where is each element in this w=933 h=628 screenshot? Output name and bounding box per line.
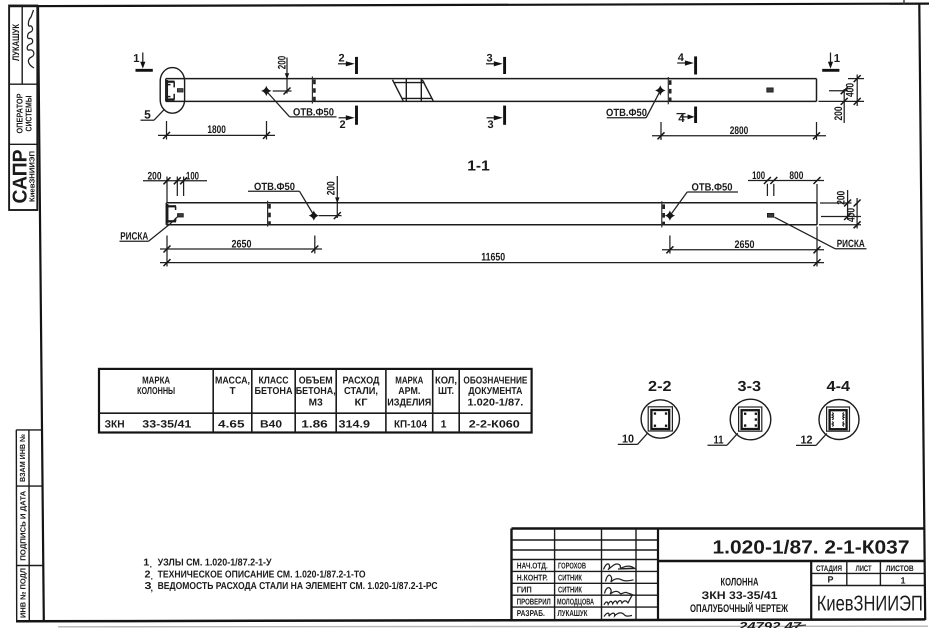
- dim 2650 right: [662, 227, 824, 267]
- svg-text:ЗКН 33-35/41: ЗКН 33-35/41: [702, 590, 778, 602]
- label КиевЗНИИЭП (vertical, small): [27, 151, 36, 202]
- svg-text:ТЕХНИЧЕСКОЕ ОПИСАНИЕ СМ. 1.020: ТЕХНИЧЕСКОЕ ОПИСАНИЕ СМ. 1.020-1/87.2-1-…: [158, 569, 366, 580]
- svg-text:200: 200: [833, 107, 845, 121]
- dim 400 right: [819, 75, 865, 107]
- view label 1-1: [467, 159, 490, 175]
- signature rows names: [557, 561, 594, 619]
- svg-text:Н.КОНТР.: Н.КОНТР.: [517, 573, 548, 583]
- callout 11: [708, 433, 738, 447]
- svg-text:КЛАСС: КЛАСС: [259, 375, 289, 386]
- svg-text:ДОКУМЕНТА: ДОКУМЕНТА: [468, 386, 522, 397]
- dim 2650 left: [160, 236, 322, 267]
- svg-text:БЕТОНА: БЕТОНА: [255, 386, 293, 397]
- signature squiggle СИТНИК 2: [605, 588, 633, 595]
- svg-text:1800: 1800: [207, 124, 226, 136]
- svg-text:ОБОЗНАЧЕНИЕ: ОБОЗНАЧЕНИЕ: [463, 375, 527, 386]
- svg-text:100: 100: [752, 170, 765, 182]
- dim 1800: [158, 121, 275, 140]
- section mark 4 top: [677, 52, 695, 75]
- svg-text:ЛУКАШУК: ЛУКАШУК: [11, 24, 22, 61]
- svg-text:1: 1: [834, 53, 841, 65]
- svg-text:В40: В40: [260, 419, 282, 431]
- LEFTSTRIP: [9, 6, 43, 622]
- svg-text:УЗЛЫ СМ. 1.020-1/87.2-1-У: УЗЛЫ СМ. 1.020-1/87.2-1-У: [158, 558, 273, 569]
- svg-text:200: 200: [836, 191, 848, 205]
- svg-text:,: ,: [151, 583, 154, 593]
- column body (plan view): [166, 79, 817, 102]
- signature squiggle ГОРОХОВ: [604, 564, 636, 570]
- section 2-2 bubble: [641, 400, 679, 438]
- svg-text:33-35/41: 33-35/41: [142, 419, 191, 431]
- SECTIONS: [618, 379, 859, 447]
- section 2-2 label: [648, 379, 672, 395]
- console parallelogram: [393, 79, 434, 102]
- frame bottom border: [16, 619, 925, 621]
- svg-text:МАССА,: МАССА,: [215, 375, 250, 386]
- svg-text:НАЧ.ОТД.: НАЧ.ОТД.: [517, 561, 548, 571]
- svg-text:СИСТЕМЫ: СИСТЕМЫ: [23, 96, 33, 132]
- label САПР (vertical, large): [10, 150, 32, 204]
- svg-text:СИТНИК: СИТНИК: [558, 585, 583, 595]
- frame right border: [919, 4, 925, 620]
- svg-text:2800: 2800: [730, 125, 749, 137]
- svg-text:1.86: 1.86: [301, 419, 328, 431]
- svg-text:ПРОВЕРИЛ: ПРОВЕРИЛ: [517, 596, 551, 606]
- section 4-4 bubble: [819, 400, 859, 440]
- svg-text:1-1: 1-1: [467, 159, 490, 175]
- svg-text:ЛИСТ: ЛИСТ: [856, 564, 872, 573]
- title block grid: [512, 529, 925, 621]
- svg-text:2-2-К060: 2-2-К060: [469, 419, 520, 431]
- leader ОТВ.Ф50 lower left: [248, 181, 314, 215]
- svg-text:КП-104: КП-104: [394, 419, 427, 431]
- paper bottom edge: [58, 625, 928, 628]
- detail ellipse 5: [160, 68, 184, 114]
- label ЛУКАШУК (vertical): [11, 24, 22, 61]
- callout 5: [141, 108, 165, 122]
- svg-text:СИТНИК: СИТНИК: [558, 573, 583, 583]
- svg-text:М3: М3: [309, 398, 323, 409]
- svg-text:1: 1: [133, 53, 140, 65]
- section 3-3 bubble: [730, 399, 771, 440]
- dim 200 right: [829, 87, 848, 123]
- table header КЛАСС БЕТОНА: [255, 375, 293, 397]
- svg-text:200: 200: [148, 170, 162, 182]
- svg-text:ИЗДЕЛИЯ: ИЗДЕЛИЯ: [387, 398, 431, 409]
- section mark 1 left: [133, 53, 153, 71]
- svg-text:2650: 2650: [735, 239, 755, 251]
- svg-text:КГ: КГ: [355, 398, 368, 409]
- svg-text:МОЛОДЦОВА: МОЛОДЦОВА: [557, 596, 594, 606]
- svg-text:4: 4: [678, 52, 685, 64]
- logo КиевЗНИИЭП: [817, 591, 923, 615]
- svg-text:400: 400: [845, 83, 857, 97]
- table header ОБОЗНАЧЕНИЕ ДОКУМЕНТА: [463, 375, 527, 408]
- svg-text:800: 800: [789, 170, 803, 182]
- svg-text:4-4: 4-4: [827, 379, 851, 395]
- svg-text:200: 200: [325, 181, 337, 195]
- table header КОЛ ШТ: [435, 375, 457, 397]
- svg-text:2-2: 2-2: [648, 379, 672, 395]
- hole mark left: [261, 86, 271, 96]
- svg-text:СТАДИЯ: СТАДИЯ: [816, 564, 842, 573]
- svg-text:ЛУКАШУК: ЛУКАШУК: [558, 608, 589, 618]
- svg-text:Т: Т: [229, 386, 235, 397]
- svg-text:2: 2: [338, 53, 344, 65]
- note 3: [145, 581, 438, 593]
- stage cells labels: [816, 564, 914, 586]
- leader ОТВ.Ф50 left: [267, 92, 337, 119]
- TITLEBLOCK: [512, 529, 925, 628]
- section mark 1 right: [822, 53, 841, 71]
- dims 200 400 lower right: [819, 190, 861, 229]
- svg-text:ОБЪЕМ: ОБЪЕМ: [299, 375, 333, 386]
- table header МАРКА АРМ ИЗДЕЛИЯ: [387, 375, 431, 408]
- svg-text:ПОДПИСЬ И ДАТА: ПОДПИСЬ И ДАТА: [18, 490, 27, 561]
- svg-text:4.65: 4.65: [218, 419, 245, 431]
- leader ОТВ.Ф50 lower right: [670, 182, 738, 216]
- note 1: [143, 558, 272, 570]
- svg-text:ВЗАМ ИНВ №: ВЗАМ ИНВ №: [18, 434, 27, 482]
- label РИСКА right: [775, 217, 867, 250]
- section 4-4 label: [827, 379, 851, 395]
- inventory box bottom-left: [16, 430, 43, 621]
- svg-text:314.9: 314.9: [339, 419, 371, 431]
- section mark 2 bottom: [339, 106, 357, 131]
- dim 11650: [160, 252, 824, 266]
- section mark 3 top: [486, 53, 505, 75]
- callout 12: [796, 433, 827, 446]
- dim 200 vertical mid: [273, 56, 292, 95]
- doc number 1.020-1/87. 2-1-К037: [713, 537, 910, 558]
- riska plate lower left: [178, 214, 184, 217]
- signature rows labels: [517, 561, 551, 619]
- svg-text:1: 1: [900, 576, 905, 586]
- end channel marks lower left: [166, 204, 176, 224]
- signature squiggle МОЛОДЦОВА: [604, 595, 632, 604]
- svg-text:КиевЗНИИЭП: КиевЗНИИЭП: [27, 151, 36, 202]
- project name КОЛОННА: [690, 576, 788, 615]
- svg-text:.: .: [150, 560, 153, 570]
- dim 200 vertical lower: [319, 176, 342, 219]
- svg-text:ВЕДОМОСТЬ РАСХОДА СТАЛИ НА ЭЛЕ: ВЕДОМОСТЬ РАСХОДА СТАЛИ НА ЭЛЕМЕНТ СМ. 1…: [158, 581, 438, 592]
- svg-text:11650: 11650: [481, 252, 505, 264]
- stamp box top-left: [9, 6, 37, 211]
- svg-text:РАЗРАБ.: РАЗРАБ.: [517, 608, 545, 618]
- svg-text:2650: 2650: [232, 238, 252, 250]
- leader ОТВ.Ф50 right: [606, 91, 660, 119]
- signature squiggle ЛУКАШУК: [604, 613, 632, 617]
- label ИНВ № ПОДЛ (vertical): [19, 568, 28, 618]
- TABLE: [99, 369, 532, 433]
- dashed cut lines right: [668, 77, 670, 104]
- svg-text:3: 3: [487, 119, 493, 131]
- table grid: [99, 369, 532, 433]
- label РИСКА left: [120, 216, 179, 243]
- NOTES: [143, 558, 437, 593]
- svg-text:ГОРОХОВ: ГОРОХОВ: [558, 561, 586, 571]
- svg-text:РАСХОД: РАСХОД: [343, 375, 380, 386]
- svg-text:3-3: 3-3: [738, 379, 762, 395]
- label ВЗАМ ИНВ № (vertical): [18, 434, 27, 482]
- svg-text:200: 200: [277, 56, 289, 70]
- frame top border: [9, 4, 929, 7]
- svg-text:1.020-1/87.: 1.020-1/87.: [467, 398, 523, 409]
- table header МАССА Т: [215, 375, 250, 397]
- signature (vertical squiggle): [27, 10, 34, 68]
- svg-text:1: 1: [441, 419, 447, 431]
- dim 2800: [652, 122, 826, 140]
- signature squiggle СИТНИК 1: [606, 575, 634, 582]
- hole mark lower right: [665, 210, 675, 220]
- handwritten archive number: [738, 621, 806, 628]
- svg-text:ОПАЛУБОЧНЫЙ ЧЕРТЕЖ: ОПАЛУБОЧНЫЙ ЧЕРТЕЖ: [690, 602, 788, 615]
- svg-text:КОЛ,: КОЛ,: [435, 375, 457, 386]
- label ОПЕРАТОР СИСТЕМЫ (vertical): [14, 93, 33, 133]
- hole mark lower left: [309, 210, 319, 220]
- callout 10: [618, 433, 648, 446]
- riska plate lower right: [767, 213, 773, 217]
- svg-text:ГИП: ГИП: [517, 585, 532, 595]
- note 2: [145, 569, 366, 581]
- table data row: [105, 419, 520, 431]
- hole mark right: [655, 85, 665, 95]
- svg-text:АРМ.: АРМ.: [398, 386, 420, 397]
- table header РАСХОД СТАЛИ КГ: [343, 375, 380, 408]
- section mark 2 top: [338, 53, 357, 75]
- section mark 3 bottom: [487, 106, 505, 131]
- svg-text:КОЛОННЫ: КОЛОННЫ: [137, 386, 175, 397]
- svg-text:МАРКА: МАРКА: [142, 375, 170, 386]
- svg-text:400: 400: [846, 208, 858, 222]
- svg-text:КиевЗНИИЭП: КиевЗНИИЭП: [817, 591, 923, 615]
- svg-text:ЛИСТОВ: ЛИСТОВ: [886, 564, 914, 573]
- svg-text:4: 4: [678, 113, 685, 125]
- riska plate mark top view: [767, 88, 773, 92]
- svg-text:ШТ.: ШТ.: [438, 386, 454, 397]
- svg-text:.: .: [151, 571, 154, 581]
- svg-text:ИНВ № ПОДЛ: ИНВ № ПОДЛ: [19, 568, 28, 618]
- dim 200 100 top left: [143, 170, 207, 203]
- TOPVIEW: [133, 52, 864, 140]
- svg-text:Р: Р: [827, 575, 833, 585]
- svg-text:КОЛОННА: КОЛОННА: [721, 576, 759, 588]
- svg-text:БЕТОНА,: БЕТОНА,: [296, 386, 336, 397]
- end channel marks left: [166, 80, 175, 101]
- svg-text:СТАЛИ,: СТАЛИ,: [344, 386, 378, 397]
- svg-text:100: 100: [186, 170, 199, 182]
- LOWERVIEW: [120, 159, 867, 267]
- svg-text:МАРКА: МАРКА: [395, 375, 423, 386]
- table header МАРКА КОЛОННЫ: [137, 375, 175, 397]
- svg-text:3: 3: [486, 53, 492, 65]
- section 3-3 label: [738, 379, 762, 395]
- svg-text:2: 2: [339, 119, 345, 131]
- label ПОДПИСЬ И ДАТА (vertical): [18, 490, 27, 561]
- dim 100 800 top right: [748, 170, 824, 203]
- dashed riska lines lower mid: [268, 201, 270, 227]
- svg-text:ЗКН: ЗКН: [105, 419, 125, 431]
- top cut mark: [903, 0, 905, 5]
- svg-text:1.020-1/87. 2-1-К037: 1.020-1/87. 2-1-К037: [713, 537, 910, 558]
- embed plate mark: [177, 89, 183, 92]
- table header ОБЪЕМ БЕТОНА М3: [296, 375, 336, 408]
- dashed riska lines mid: [312, 77, 314, 104]
- dashed cut lines lower right: [662, 201, 664, 227]
- column body (section 1-1): [166, 203, 817, 225]
- frame left border: [38, 5, 44, 621]
- section mark 4 bottom: [677, 107, 696, 125]
